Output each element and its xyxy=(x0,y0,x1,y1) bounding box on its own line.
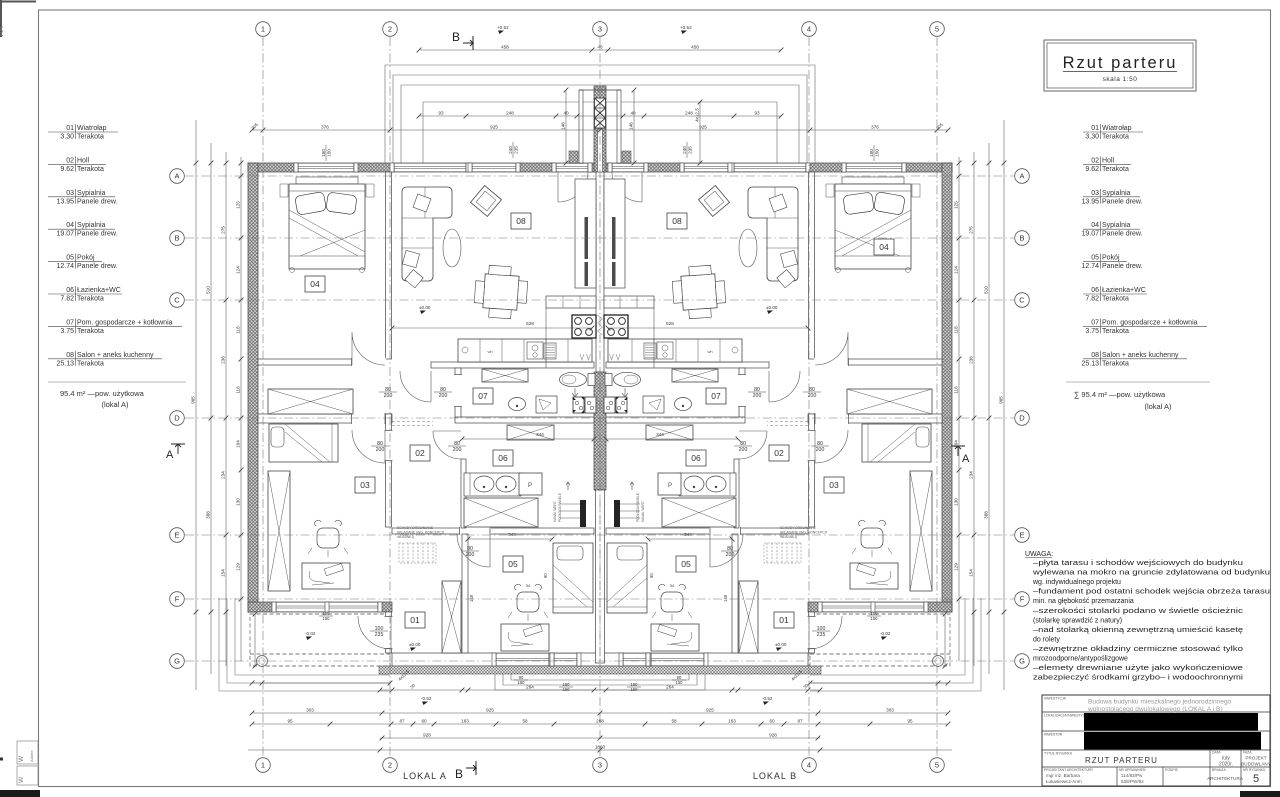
left dim col 4 xyxy=(240,157,242,661)
vestibule door to living xyxy=(558,172,588,202)
svg-text:Terakota: Terakota xyxy=(77,134,104,141)
basins bath xyxy=(474,476,494,492)
chimney flues xyxy=(595,98,606,128)
right dim col 3 xyxy=(973,152,975,666)
svg-text:Holl: Holl xyxy=(1102,157,1115,164)
svg-text:150: 150 xyxy=(323,611,331,616)
svg-text:Panele drew.: Panele drew. xyxy=(1102,231,1143,238)
svg-text:150: 150 xyxy=(631,687,639,692)
vestibule vertical dims xyxy=(565,90,567,163)
window room04 top right xyxy=(846,163,902,172)
svg-text:40: 40 xyxy=(630,110,636,115)
svg-text:163: 163 xyxy=(461,718,469,723)
svg-text:95: 95 xyxy=(287,718,293,723)
right entrance porch xyxy=(810,614,950,666)
svg-text:Panele drew.: Panele drew. xyxy=(77,198,118,205)
svg-text:19.07: 19.07 xyxy=(1081,231,1099,238)
svg-text:Terakota: Terakota xyxy=(77,328,104,335)
svg-text:-0.02: -0.02 xyxy=(880,631,891,636)
svg-text:AA: AA xyxy=(0,26,5,36)
svg-text:D: D xyxy=(174,414,180,423)
kitchen counter xyxy=(458,339,592,362)
svg-text:985: 985 xyxy=(190,396,195,404)
svg-text:Terakota: Terakota xyxy=(77,296,104,303)
fridge grill xyxy=(544,343,556,359)
wardrobe X room03 xyxy=(268,471,290,591)
svg-text:235: 235 xyxy=(514,146,519,154)
svg-text:58: 58 xyxy=(671,718,677,723)
door hall to 03 xyxy=(352,430,385,463)
interior dims xyxy=(392,327,592,329)
svg-text:08: 08 xyxy=(1091,352,1099,359)
svg-text:08: 08 xyxy=(516,216,526,226)
svg-text:E: E xyxy=(174,531,179,540)
exterior bottom wall right block xyxy=(808,602,952,612)
svg-text:LOKAL B: LOKAL B xyxy=(753,771,797,781)
svg-text:234: 234 xyxy=(968,471,973,479)
bottom dim row C xyxy=(252,723,948,725)
wardrobe X hall xyxy=(268,389,353,414)
exterior right wall xyxy=(942,163,952,612)
svg-text:90: 90 xyxy=(677,675,682,680)
stove xyxy=(572,315,596,338)
svg-text:Terakota: Terakota xyxy=(1102,296,1129,303)
svg-text:PROJEKT: PROJEKT xyxy=(1245,756,1266,761)
svg-text:Łukasiewicz-Anm: Łukasiewicz-Anm xyxy=(1046,779,1082,784)
door 01 to 05 xyxy=(457,534,490,567)
right dim col 4 xyxy=(958,157,960,661)
svg-text:2: 2 xyxy=(388,25,392,34)
svg-text:528: 528 xyxy=(666,321,674,326)
svg-text:Adobe: Adobe xyxy=(29,750,34,762)
svg-text:9.62: 9.62 xyxy=(60,166,74,173)
wall 04 south xyxy=(258,359,352,365)
svg-text:KANAŁ WENT.: KANAŁ WENT. xyxy=(641,501,645,522)
svg-text:Sypialnia: Sypialnia xyxy=(77,222,106,229)
svg-text:150: 150 xyxy=(631,682,639,687)
svg-text:–zewnętrzne okładziny cermiczn: –zewnętrzne okładziny cermiczne stosować… xyxy=(1033,646,1243,653)
window room03 bottom right xyxy=(822,602,924,612)
svg-text:07: 07 xyxy=(66,319,74,326)
svg-text:150: 150 xyxy=(321,149,326,157)
svg-text:Sypialnia: Sypialnia xyxy=(1102,190,1131,197)
svg-text:163: 163 xyxy=(728,718,736,723)
wall under kitchen xyxy=(431,362,594,368)
grid bubbles top xyxy=(256,22,271,37)
svg-text:Panele drew.: Panele drew. xyxy=(77,263,118,270)
wall bottom rooms north xyxy=(392,528,594,534)
exterior left wall xyxy=(248,163,258,612)
svg-text:Sypialnia: Sypialnia xyxy=(77,190,106,197)
svg-text:2020r.: 2020r. xyxy=(1219,762,1233,768)
svg-text:–płyta tarasu i schodów wejści: –płyta tarasu i schodów wejściowych do b… xyxy=(1033,560,1243,567)
svg-text:118: 118 xyxy=(235,326,240,334)
svg-text:02: 02 xyxy=(774,448,784,458)
svg-text:150: 150 xyxy=(871,611,879,616)
svg-text:58: 58 xyxy=(522,718,528,723)
svg-text:60: 60 xyxy=(421,718,427,723)
svg-text:150: 150 xyxy=(676,680,684,685)
svg-text:G: G xyxy=(1019,657,1025,666)
wall corridor south east xyxy=(455,417,594,423)
svg-text:1: 1 xyxy=(261,25,265,34)
svg-text:06: 06 xyxy=(66,287,74,294)
svg-text:87: 87 xyxy=(399,718,405,723)
svg-text:PROJEKTANT ARCHITEKTURY: PROJEKTANT ARCHITEKTURY xyxy=(1044,768,1094,772)
svg-text:118: 118 xyxy=(953,386,958,394)
svg-text:03: 03 xyxy=(360,480,370,490)
bed room04 xyxy=(296,177,358,184)
bed room05 xyxy=(553,543,593,613)
svg-text:150: 150 xyxy=(518,680,526,685)
svg-text:200: 200 xyxy=(816,447,825,453)
wall 03|hall vertical xyxy=(386,414,392,527)
svg-text:mgr inż. Barbara: mgr inż. Barbara xyxy=(1046,773,1080,778)
washer P xyxy=(519,473,542,495)
svg-text:275: 275 xyxy=(968,226,973,234)
svg-text:985: 985 xyxy=(998,396,1003,404)
wall 04|08 vertical xyxy=(386,172,392,359)
windows living room left xyxy=(394,163,466,172)
svg-text:BUDOWLANY: BUDOWLANY xyxy=(1241,762,1271,767)
svg-text:W: W xyxy=(18,776,25,783)
svg-text:146: 146 xyxy=(628,122,633,130)
svg-text:200: 200 xyxy=(453,447,462,453)
svg-text:248: 248 xyxy=(506,110,514,115)
svg-text:130: 130 xyxy=(235,498,240,506)
svg-text:03: 03 xyxy=(66,190,74,197)
grid bubbles right xyxy=(1015,169,1030,184)
svg-text:skala 1:50: skala 1:50 xyxy=(1103,76,1138,83)
svg-text:Pokój: Pokój xyxy=(77,255,95,262)
cabinet X corridor xyxy=(507,425,554,440)
svg-text:±0.00: ±0.00 xyxy=(419,305,431,310)
svg-text:do rolety: do rolety xyxy=(1033,636,1060,643)
window room04 top left xyxy=(298,163,354,172)
svg-text:min. na głębokość przemarzania: min. na głębokość przemarzania xyxy=(1033,598,1134,605)
svg-text:04: 04 xyxy=(1091,222,1099,229)
windows bottom rooms xyxy=(496,653,549,666)
svg-text:wh: wh xyxy=(487,349,492,354)
svg-text:129: 129 xyxy=(953,563,958,571)
svg-text:07: 07 xyxy=(478,391,488,401)
window room03 bottom left xyxy=(276,602,378,612)
svg-text:INWESTOR: INWESTOR xyxy=(1044,733,1063,737)
svg-text:344: 344 xyxy=(656,432,664,437)
svg-text:01: 01 xyxy=(66,125,74,132)
corner crop mark top-left xyxy=(0,0,36,37)
svg-text:303: 303 xyxy=(306,707,314,712)
svg-text:1: 1 xyxy=(261,761,265,770)
svg-text:510: 510 xyxy=(205,286,210,294)
svg-text:13.95: 13.95 xyxy=(1081,198,1099,205)
svg-text:Wiatrołap: Wiatrołap xyxy=(77,125,107,132)
svg-text:–fundament pod ostatni schodek: –fundament pod ostatni schodek wejścia o… xyxy=(1033,589,1270,596)
svg-text:3.30: 3.30 xyxy=(60,134,74,141)
svg-text:150: 150 xyxy=(323,616,331,621)
top terrace steps xyxy=(385,65,815,163)
svg-text:04: 04 xyxy=(66,222,74,229)
svg-text:150: 150 xyxy=(869,149,874,157)
svg-text:154: 154 xyxy=(220,569,225,577)
svg-text:Terakota: Terakota xyxy=(1102,360,1129,367)
svg-text:344: 344 xyxy=(536,432,544,437)
svg-text:05: 05 xyxy=(681,559,691,569)
svg-text:235: 235 xyxy=(375,632,384,638)
svg-text:925: 925 xyxy=(490,124,498,129)
svg-text:200: 200 xyxy=(384,393,393,399)
wall porch|01 vertical xyxy=(386,612,392,653)
svg-text:234: 234 xyxy=(220,471,225,479)
top dim row 2 xyxy=(419,115,781,117)
dashed low wall hall xyxy=(392,421,433,423)
svg-text:Salon + aneks kuchenny: Salon + aneks kuchenny xyxy=(1102,352,1179,359)
washer dryer xyxy=(573,397,584,413)
svg-text:118: 118 xyxy=(235,386,240,394)
svg-text:mrozoodporne/antypoślizgowe: mrozoodporne/antypoślizgowe xyxy=(1033,656,1128,663)
svg-text:B: B xyxy=(1019,234,1024,243)
svg-text:60: 60 xyxy=(769,718,775,723)
svg-text:TYTUŁ RYSUNKU: TYTUŁ RYSUNKU xyxy=(1044,752,1073,756)
svg-text:303: 303 xyxy=(886,707,894,712)
stairs dashed xyxy=(399,543,436,563)
title table xyxy=(1042,695,1270,786)
kitchen sink xyxy=(527,342,543,359)
svg-text:200: 200 xyxy=(466,552,475,558)
svg-text:118: 118 xyxy=(953,326,958,334)
left porch dims xyxy=(252,682,390,684)
svg-text:wg. indywidualnego projektu: wg. indywidualnego projektu xyxy=(1032,579,1121,586)
svg-text:376: 376 xyxy=(321,124,329,129)
svg-text:25.13: 25.13 xyxy=(1081,360,1099,367)
svg-text:150: 150 xyxy=(871,616,879,621)
svg-text:200: 200 xyxy=(753,393,762,399)
svg-text:E: E xyxy=(1019,531,1024,540)
svg-text:104: 104 xyxy=(235,440,240,448)
svg-text:129: 129 xyxy=(235,563,240,571)
svg-text:SKŁADANE (WG. KONCEPCJI: SKŁADANE (WG. KONCEPCJI xyxy=(780,531,827,535)
svg-text:248: 248 xyxy=(685,110,693,115)
svg-text:(stolarkę sprawdzić z natury): (stolarkę sprawdzić z natury) xyxy=(1033,617,1122,624)
svg-text:Pom. gospodarcze + kotłownia: Pom. gospodarcze + kotłownia xyxy=(1102,319,1198,326)
vestibule walls xyxy=(579,90,583,163)
svg-text:wolnostojącego dwulokalowego (: wolnostojącego dwulokalowego (LOKAL A i … xyxy=(1087,706,1223,713)
porch column right xyxy=(933,656,944,667)
svg-text:05: 05 xyxy=(1091,255,1099,262)
svg-text:F: F xyxy=(1020,595,1025,604)
svg-text:104: 104 xyxy=(953,440,958,448)
rug oval xyxy=(443,229,461,267)
svg-text:236: 236 xyxy=(968,356,973,364)
svg-text:925: 925 xyxy=(699,124,707,129)
svg-text:5: 5 xyxy=(935,761,939,770)
svg-text:07: 07 xyxy=(711,391,721,401)
svg-text:95.4 m² —pow. użytkowa: 95.4 m² —pow. użytkowa xyxy=(60,389,145,398)
svg-text:02: 02 xyxy=(415,448,425,458)
kitchen wall strip xyxy=(546,296,596,308)
svg-text:±0.00: ±0.00 xyxy=(409,642,421,647)
svg-text:Pokój: Pokój xyxy=(1102,255,1120,262)
svg-text:925: 925 xyxy=(706,707,714,712)
window labels xyxy=(321,145,332,161)
svg-text:928: 928 xyxy=(423,732,431,737)
svg-text:4x12,5: 4x12,5 xyxy=(694,108,699,122)
svg-text:04: 04 xyxy=(310,279,320,289)
svg-text:–elemety drewniane użyte jako: –elemety drewniane użyte jako wykończeni… xyxy=(1033,665,1243,672)
desk room03 xyxy=(302,563,350,589)
svg-text:SCHODY DREWNIANE: SCHODY DREWNIANE xyxy=(780,526,817,530)
svg-text:4: 4 xyxy=(807,761,811,770)
svg-text:150: 150 xyxy=(563,682,571,687)
entrance door xyxy=(358,616,391,649)
svg-text:90: 90 xyxy=(649,573,654,578)
porch column left xyxy=(257,656,268,667)
svg-text:Holl: Holl xyxy=(77,157,90,164)
shower X xyxy=(464,498,538,527)
svg-text:07: 07 xyxy=(1091,319,1099,326)
svg-text:114/83/Pw: 114/83/Pw xyxy=(1121,773,1143,778)
svg-text:34: 34 xyxy=(670,583,675,588)
svg-text:F: F xyxy=(175,595,180,604)
sofa L xyxy=(402,187,452,281)
svg-text:12.74: 12.74 xyxy=(56,263,74,270)
svg-text:wylewana na mokro na gruncie z: wylewana na mokro na gruncie zdylatowana… xyxy=(1032,570,1270,577)
svg-text:264: 264 xyxy=(526,684,534,689)
svg-text:04: 04 xyxy=(879,242,889,252)
svg-text:BRANŻA: BRANŻA xyxy=(1212,767,1226,772)
svg-text:02: 02 xyxy=(66,157,74,164)
svg-text:Terakota: Terakota xyxy=(1102,328,1129,335)
windows living room right xyxy=(734,163,806,172)
svg-text:3: 3 xyxy=(598,761,602,770)
svg-text:125: 125 xyxy=(235,201,240,209)
svg-text:+0.52: +0.52 xyxy=(680,25,692,30)
tall wardrobe at party wall xyxy=(575,179,596,288)
svg-text:INWESTYCJA: INWESTYCJA xyxy=(1044,697,1067,701)
bottom terrace steps xyxy=(495,674,705,690)
svg-text:A: A xyxy=(1019,172,1024,181)
svg-text:Terakota: Terakota xyxy=(77,166,104,173)
svg-text:275: 275 xyxy=(220,226,225,234)
bed room03 xyxy=(269,424,338,462)
svg-text:Terakota: Terakota xyxy=(77,360,104,367)
svg-text:∑ 95.4 m² —pow. użytkowa: ∑ 95.4 m² —pow. użytkowa xyxy=(1074,390,1166,399)
bottom dim row D (928) xyxy=(380,737,820,739)
svg-text:B: B xyxy=(455,767,463,781)
svg-text:KANAŁ WENT.: KANAŁ WENT. xyxy=(553,501,557,522)
svg-text:Terakota: Terakota xyxy=(1102,166,1129,173)
svg-text:05: 05 xyxy=(66,255,74,262)
svg-text:12.74: 12.74 xyxy=(1081,263,1099,270)
svg-text:148: 148 xyxy=(723,594,728,602)
grid lines xyxy=(185,37,1014,757)
svg-text:Salon + aneks kuchenny: Salon + aneks kuchenny xyxy=(77,352,154,359)
svg-text:-0.02: -0.02 xyxy=(305,631,316,636)
basin small xyxy=(509,398,526,411)
svg-text:7.82: 7.82 xyxy=(60,296,74,303)
svg-text:7.82: 7.82 xyxy=(1085,296,1099,303)
svg-text:388: 388 xyxy=(983,511,988,519)
bottom dim row E (1860) xyxy=(248,749,952,751)
svg-text:Panele drew.: Panele drew. xyxy=(1102,198,1143,205)
party wall xyxy=(594,86,606,172)
svg-text:510: 510 xyxy=(983,286,988,294)
grid bubbles bottom xyxy=(256,758,271,773)
svg-text:240: 240 xyxy=(508,146,513,154)
svg-text:NR RYSUNKU: NR RYSUNKU xyxy=(1243,768,1266,772)
svg-text:200: 200 xyxy=(376,447,385,453)
svg-text:344: 344 xyxy=(508,532,516,537)
exterior top wall xyxy=(248,163,952,172)
svg-text:4: 4 xyxy=(807,25,811,34)
svg-text:344: 344 xyxy=(684,532,692,537)
svg-text:06: 06 xyxy=(1091,287,1099,294)
svg-text:146: 146 xyxy=(560,122,565,130)
svg-text:08: 08 xyxy=(672,216,682,226)
svg-text:01: 01 xyxy=(1091,125,1099,132)
bath counter xyxy=(464,473,521,496)
door hall to 04 xyxy=(352,332,385,365)
svg-text:236: 236 xyxy=(220,356,225,364)
right porch dims xyxy=(810,682,948,684)
svg-text:130: 130 xyxy=(953,498,958,506)
svg-text:928: 928 xyxy=(769,732,777,737)
svg-text:34: 34 xyxy=(526,583,531,588)
table row5 xyxy=(1116,767,1118,786)
bottom dim row B (925) xyxy=(252,712,948,714)
svg-text:LOKALIZACJA INWESTYCJI: LOKALIZACJA INWESTYCJI xyxy=(1044,714,1088,718)
svg-text:93: 93 xyxy=(438,110,444,115)
svg-text:124: 124 xyxy=(953,266,958,274)
svg-text:(lokal A): (lokal A) xyxy=(101,400,129,409)
svg-text:Łazienka+WC: Łazienka+WC xyxy=(77,287,121,294)
left dim col 1 xyxy=(195,120,197,690)
door sills bottom center xyxy=(554,653,577,666)
party wall white channel xyxy=(598,129,603,172)
svg-text:87: 87 xyxy=(797,718,803,723)
svg-text:UWAGA:: UWAGA: xyxy=(1025,551,1053,558)
right dim col 1 xyxy=(1003,120,1005,690)
svg-text:±0.00: ±0.00 xyxy=(775,642,787,647)
wall hall|06 lower vertical xyxy=(461,459,466,528)
svg-text:95: 95 xyxy=(907,718,913,723)
bottom insulation band xyxy=(379,666,821,674)
svg-text:Panele drew.: Panele drew. xyxy=(1102,263,1143,270)
wardrobe X room01 xyxy=(442,581,461,653)
svg-text:LOKAL A: LOKAL A xyxy=(403,771,447,781)
radiator bar xyxy=(580,500,586,527)
left entrance porch xyxy=(250,614,390,666)
svg-text:200: 200 xyxy=(739,447,748,453)
svg-text:9.62: 9.62 xyxy=(1085,166,1099,173)
grid bubbles left xyxy=(170,169,185,184)
svg-text:wh: wh xyxy=(707,349,712,354)
left porch steps xyxy=(219,598,390,691)
bottom rooms south wall xyxy=(392,653,808,666)
svg-text:2: 2 xyxy=(388,761,392,770)
svg-text:C: C xyxy=(1019,296,1025,305)
svg-text:06: 06 xyxy=(498,453,508,463)
svg-text:388: 388 xyxy=(205,511,210,519)
svg-text:01: 01 xyxy=(779,615,789,625)
svg-text:DATA: DATA xyxy=(1212,751,1221,755)
svg-text:150: 150 xyxy=(327,149,332,157)
svg-text:C: C xyxy=(174,296,180,305)
svg-text:RZUT PARTERU: RZUT PARTERU xyxy=(1085,756,1158,765)
entry door sill right xyxy=(612,163,644,172)
svg-text:08: 08 xyxy=(66,352,74,359)
svg-text:PODPIS: PODPIS xyxy=(1165,768,1179,772)
